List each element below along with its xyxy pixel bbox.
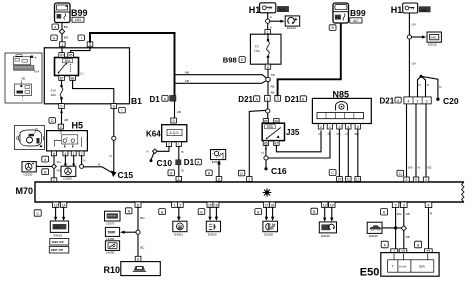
svg-text:C3020: C3020 (63, 177, 72, 181)
connector tag B (206, 170, 212, 176)
J35 pin 30 (274, 119, 279, 124)
wire node to M70 pin2 (249, 110, 265, 176)
diagnostic socket R10 (121, 262, 161, 276)
R10 pin 8 (135, 256, 141, 261)
connector tag A (51, 35, 57, 41)
M70 pin 18 (bottom) (269, 202, 275, 207)
B1 pin 5 (59, 104, 65, 109)
wire J35 87 to N85 pin2 (276, 131, 321, 152)
svg-text:8: 8 (137, 257, 139, 261)
M70 pin 2 (bottom) (177, 202, 183, 207)
D21 pin 3 (275, 95, 281, 101)
N85 pin 5 (355, 124, 360, 129)
wire pin1 to 30 (61, 47, 63, 53)
svg-text:1: 1 (178, 143, 180, 147)
relay pin 86 (70, 76, 76, 81)
connector tag A (52, 24, 58, 30)
M70 pin 3 (bottom, E50) (401, 202, 408, 208)
splice diamond (59, 29, 64, 34)
D21 pin 1 (265, 95, 271, 101)
svg-text:8: 8 (89, 43, 91, 47)
svg-text:D21: D21 (238, 95, 253, 104)
svg-text:0000: 0000 (54, 225, 61, 229)
wire H5 pin6 to M70 (53, 156, 55, 178)
N85 pin 4 (346, 124, 351, 129)
M70 pin 2 (top, block C) (51, 178, 57, 183)
svg-text:9: 9 (415, 178, 417, 182)
connector tag A (42, 156, 49, 162)
M70 pin 4 (bottom, E50) (425, 202, 432, 208)
svg-text:N: N (147, 150, 149, 154)
svg-text:AB: AB (406, 212, 410, 216)
svg-text:4: 4 (64, 152, 66, 156)
svg-text:A: A (270, 15, 272, 19)
svg-text:A/C: A/C (353, 19, 359, 23)
svg-text:B: B (182, 169, 184, 173)
connector tag D (49, 118, 55, 124)
svg-text:WV: WV (397, 212, 402, 216)
svg-text:I: I (81, 36, 82, 40)
svg-text:E1: E1 (80, 72, 84, 76)
icon L3570 (105, 211, 121, 225)
wire D21 pin3 to B99 A/C (278, 23, 341, 95)
H5 pin 4 (63, 151, 68, 156)
svg-text:10: 10 (338, 177, 342, 181)
svg-text:14: 14 (62, 203, 66, 207)
gear symbol in M70 (263, 188, 272, 197)
splice circle (264, 156, 268, 160)
svg-text:12: 12 (356, 177, 360, 181)
splice circle (266, 109, 270, 113)
svg-text:5: 5 (357, 125, 359, 129)
fuse F2 in B98 (267, 34, 270, 64)
svg-text:J35: J35 (286, 128, 300, 137)
battery B99 (A/C) (333, 3, 349, 23)
D21 connector 3-pin box (404, 97, 431, 104)
wire B98 to node (267, 69, 269, 77)
K64 pin 1 (176, 142, 181, 147)
B1 pin 1 (60, 42, 66, 47)
AB feed line upper (175, 75, 267, 79)
wire H5 pin1 to C3020 (73, 156, 75, 165)
relay pin 87 (59, 76, 65, 81)
H5 pin 2 (top) (58, 124, 63, 129)
svg-text:D1: D1 (150, 95, 161, 104)
engine location illustration (15, 126, 45, 150)
relay pin 85 (68, 53, 74, 58)
svg-text:VN: VN (56, 160, 60, 164)
icon E3000 headlamp (206, 221, 220, 236)
tag (dark) (277, 6, 288, 11)
svg-text:6: 6 (53, 152, 55, 156)
svg-text:2: 2 (417, 99, 419, 103)
splice circle (136, 230, 140, 234)
panel lamp E3530 (211, 149, 226, 164)
M70 pin 1 (423, 177, 429, 182)
icon E1010 (285, 16, 300, 30)
svg-text:BN: BN (64, 25, 68, 29)
wires to E3030 (324, 207, 326, 218)
svg-text:F14: F14 (34, 70, 40, 74)
svg-text:6: 6 (113, 105, 115, 109)
svg-text:3: 3 (403, 204, 405, 208)
arrow to TRIP (124, 231, 136, 233)
N85 pin 2 (318, 124, 323, 129)
B1 pin 8 (87, 42, 93, 47)
svg-text:B1: B1 (131, 96, 142, 106)
svg-text:F2: F2 (255, 44, 259, 48)
wire J35 86 to C16 and N85 pin1 (265, 145, 267, 155)
svg-text:16: 16 (214, 203, 218, 207)
heated rear window H5 (47, 129, 88, 151)
fuse F14 in B1 (60, 80, 63, 103)
svg-text:B99: B99 (350, 8, 366, 18)
svg-text:1: 1 (425, 178, 427, 182)
wire node to D21 pin1 (267, 82, 269, 96)
icon E2030 fog lamp (263, 221, 278, 236)
svg-text:D21: D21 (380, 96, 395, 105)
svg-text:BN: BN (64, 36, 68, 40)
svg-text:E1010: E1010 (287, 26, 296, 30)
N85 pin 3 (337, 124, 342, 129)
svg-text:2: 2 (168, 143, 170, 147)
connector tag I (119, 107, 126, 113)
svg-text:B99: B99 (71, 8, 88, 18)
svg-text:E50: E50 (360, 267, 380, 279)
svg-text:3: 3 (426, 99, 428, 103)
svg-text:4: 4 (428, 204, 430, 208)
node wire from top to D1 (174, 33, 176, 96)
svg-text:C10: C10 (157, 158, 173, 168)
svg-text:18: 18 (270, 203, 274, 207)
D1 pin (dark) (170, 95, 176, 101)
svg-text:14: 14 (330, 203, 334, 207)
wire D21 pin1 to J35 85 (267, 101, 269, 118)
M70 pin 14 (bottom) (60, 202, 66, 207)
B1 pin 6 (111, 104, 117, 109)
wire to E4021 (178, 207, 180, 217)
icon E4015 odometer (50, 221, 68, 237)
svg-text:85: 85 (69, 53, 73, 57)
fusebox location illustration (5, 53, 42, 103)
svg-text:2387 JTD: 2387 JTD (51, 248, 63, 252)
M70 pin 14 (bottom right) (329, 202, 335, 207)
splice circle (266, 19, 270, 23)
svg-text:20A: 20A (51, 93, 56, 97)
wire B1 pin6 to C15 (113, 109, 115, 173)
connector icon C3020 (B) (61, 166, 76, 180)
svg-text:8: 8 (218, 177, 220, 181)
M70 pin 17 (bottom) (263, 202, 269, 207)
icon E4021 (173, 221, 187, 236)
M70 pin 1 (bottom) (172, 202, 178, 207)
wire M70-5 to E50-7 (395, 208, 397, 249)
variant tag 1910 JTD (50, 238, 69, 245)
svg-text:1: 1 (329, 125, 331, 129)
M70 pin 1 (top) (176, 176, 182, 181)
E50 pin 7 (391, 249, 398, 254)
tag (dark) (419, 7, 430, 12)
svg-text:5: 5 (395, 204, 397, 208)
K64 pin 9 (171, 118, 177, 123)
M70 pin 8 (top) (216, 177, 222, 182)
fuse box B98 (250, 34, 281, 64)
H5 pin 6 (51, 151, 56, 156)
svg-text:N: N (427, 83, 429, 87)
svg-text:N: N (439, 85, 441, 89)
connector tag B (198, 209, 205, 215)
splice diamond (153, 149, 158, 154)
variant tag 2387 JTD (49, 246, 69, 253)
instrument cluster E50 (381, 253, 439, 277)
svg-text:17: 17 (264, 203, 268, 207)
C20 bracket node (420, 75, 423, 78)
wire C3020 to diamond (36, 165, 51, 167)
svg-text:BH: BH (140, 216, 144, 220)
M70 pin 12 (355, 177, 361, 182)
svg-text:C3020: C3020 (24, 172, 33, 176)
M70 pin 9 (413, 177, 419, 182)
svg-text:A: A (270, 26, 272, 30)
wire M70-4 to E50-25 (428, 208, 430, 249)
svg-text:13: 13 (323, 203, 327, 207)
svg-text:1: 1 (174, 203, 176, 207)
wire H1 down (408, 13, 410, 97)
svg-text:50A: 50A (267, 125, 274, 129)
connector tag A (381, 241, 388, 248)
wire to ground C10 (151, 153, 154, 159)
connector tag B (42, 169, 49, 175)
svg-text:1/81: 1/81 (75, 18, 82, 22)
icon E2010 (427, 32, 441, 47)
B98 pin 2 (bottom) (265, 64, 271, 69)
battery B99 (left) (55, 3, 71, 23)
svg-text:VN: VN (56, 169, 60, 173)
wire D21-4 to M70 (406, 104, 408, 177)
M70 pin 11 (bottom, R10) (135, 202, 141, 207)
svg-text:1: 1 (178, 177, 180, 181)
svg-text:4: 4 (347, 125, 349, 129)
svg-text:R10: R10 (104, 265, 121, 275)
connector icon C3020 (A) (22, 162, 36, 177)
svg-text:3: 3 (277, 97, 279, 101)
svg-text:AB: AB (185, 79, 189, 83)
svg-text:E4015: E4015 (54, 233, 63, 237)
svg-text:C20: C20 (443, 96, 459, 106)
svg-text:D21: D21 (285, 95, 300, 104)
connector tag B (168, 170, 174, 176)
svg-text:2: 2 (267, 65, 269, 69)
svg-text:7: 7 (81, 152, 83, 156)
svg-text:13: 13 (54, 203, 58, 207)
wire H5 pin7 to C15 (81, 156, 83, 165)
svg-text:AB: AB (406, 235, 410, 239)
splice circle (80, 164, 84, 168)
svg-text:3HE: 3HE (430, 36, 436, 40)
connector tag D (397, 170, 404, 176)
svg-text:E3040: E3040 (369, 234, 378, 238)
M70 pin 15 (bottom) (207, 202, 213, 207)
svg-text:15: 15 (208, 203, 212, 207)
svg-text:L4080: L4080 (106, 237, 115, 241)
arrow to E2010 (412, 36, 424, 38)
svg-text:E4021: E4021 (174, 232, 183, 236)
J35 pin 86 (263, 141, 268, 146)
svg-text:C16: C16 (271, 166, 287, 176)
ground point C20 (436, 98, 439, 101)
M70 pin 2 (247, 177, 253, 182)
wire D21-2 to M70 (415, 104, 417, 177)
wire N85 pin3 to M70 (338, 129, 340, 177)
svg-text:2: 2 (179, 203, 181, 207)
svg-text:87: 87 (60, 76, 64, 80)
J35 pin 85 (263, 119, 268, 124)
svg-text:3: 3 (406, 178, 408, 182)
wire M70-3 to E50-15 (403, 208, 405, 249)
wire H5 pin4 to C3020 (64, 156, 66, 165)
svg-text:AB: AB (64, 118, 68, 122)
svg-text:AB: AB (271, 73, 275, 77)
connector tag C (329, 170, 336, 176)
svg-text:AB: AB (270, 85, 274, 89)
wire K64 pin2 to C10 (157, 147, 169, 152)
fusebox B1 (44, 48, 129, 104)
connector tag B (381, 209, 388, 215)
wire E3530 to M70 (218, 165, 220, 177)
svg-text:N: N (98, 162, 100, 166)
icon E3030 (319, 222, 336, 238)
svg-text:AB: AB (185, 71, 189, 75)
H5 pin 7 (79, 151, 84, 156)
wire K64 pin1 to M70 (178, 147, 180, 177)
D1 pin (dark, lower) (176, 160, 181, 165)
M70 pin 13 (bottom) (52, 202, 58, 207)
N85 pin 1 (327, 124, 332, 129)
svg-text:TRIP: TRIP (107, 231, 116, 235)
svg-text:11: 11 (136, 203, 140, 207)
connector tag B (311, 208, 318, 214)
svg-text:9: 9 (173, 119, 175, 123)
wire H1 down (267, 13, 269, 30)
M70 pin 10 (337, 177, 343, 182)
splice diamond (52, 164, 57, 169)
svg-text:rpm: rpm (419, 265, 425, 269)
svg-text:I: I (122, 109, 123, 113)
relay J35 (262, 123, 284, 140)
body computer M70 (35, 182, 464, 202)
wire pin8 to 85 (71, 47, 90, 53)
svg-text:E2010: E2010 (428, 43, 437, 47)
svg-text:N: N (83, 159, 85, 163)
svg-text:H1: H1 (249, 5, 261, 15)
M70 pin 11 (345, 177, 351, 182)
M70 pin 5 (bottom, E50) (392, 202, 399, 208)
wire circle to C15 (84, 167, 114, 173)
connector tag C (34, 210, 41, 216)
connector tag B (255, 209, 262, 215)
wire pin14 to E4015 (63, 207, 65, 217)
switch TRIP (105, 227, 119, 240)
svg-text:30A: 30A (64, 59, 71, 63)
wire D21-3 to M70 (425, 104, 427, 177)
ground point C15 (111, 171, 117, 178)
svg-text:AB: AB (177, 110, 181, 114)
wire pin13 to E4015 (55, 207, 57, 217)
connector tag D (for M70 pin 2 wire) (238, 170, 244, 176)
svg-text:H5: H5 (72, 120, 84, 130)
svg-text:M70: M70 (16, 186, 34, 196)
connector tag B (329, 25, 336, 31)
wire E3040 to diamond (382, 227, 402, 229)
relay pin 30 (59, 53, 65, 58)
icon L4090 (105, 241, 119, 255)
thick wire B1 pin8 up and right to node (90, 33, 175, 42)
tag 1/81 (72, 17, 84, 22)
svg-text:1: 1 (61, 43, 63, 47)
svg-text:E3000: E3000 (208, 232, 217, 236)
wire B1 pin5 to H5 (61, 109, 63, 125)
svg-text:GN: GN (408, 166, 413, 170)
svg-text:NVA: NVA (421, 8, 427, 12)
svg-text:H1: H1 (391, 5, 403, 15)
svg-text:A.Q.S.: A.Q.S. (170, 131, 180, 135)
wire 86 to pin 6 (73, 80, 114, 103)
svg-text:3: 3 (338, 125, 340, 129)
K64 pin 2 (166, 142, 171, 147)
wire D1 to K64 (174, 101, 176, 118)
AB feed line lower (175, 81, 267, 84)
svg-text:40A: 40A (335, 15, 340, 19)
svg-text:11: 11 (346, 177, 350, 181)
icon E3040 speed sensor (367, 222, 382, 238)
arrow to E1010 (270, 20, 282, 22)
svg-text:N: N (262, 151, 264, 155)
svg-text:1: 1 (73, 152, 75, 156)
J35 pin 87 (274, 141, 279, 146)
svg-text:B1: B1 (22, 77, 26, 81)
connector tag B (415, 241, 422, 248)
svg-text:30: 30 (60, 53, 64, 57)
svg-text:L3570: L3570 (106, 221, 115, 225)
svg-text:E3030: E3030 (321, 234, 330, 238)
svg-text:F14: F14 (51, 88, 57, 92)
svg-text:B98: B98 (223, 56, 237, 65)
M70 pin 3 (404, 177, 410, 182)
svg-text:AB: AB (270, 91, 274, 95)
wire to ground C16 (265, 160, 267, 167)
svg-text:A: A (35, 55, 37, 59)
wires to E3000 (209, 207, 211, 217)
svg-text:N: N (419, 83, 421, 87)
control unit K64 (162, 125, 187, 142)
svg-text:1910 JTD: 1910 JTD (51, 240, 63, 244)
wire N85 pin4 to M70 (347, 129, 349, 177)
H5 pin 1 (71, 151, 76, 156)
wire M70 to R10 (137, 207, 139, 256)
svg-text:GV: GV (412, 22, 416, 26)
connector tag B (125, 208, 132, 214)
svg-text:N: N (328, 132, 330, 136)
relay in B1 (55, 58, 79, 76)
splice circle (112, 136, 116, 140)
svg-text:2: 2 (248, 178, 250, 182)
svg-text:86: 86 (71, 76, 75, 80)
wires to E2030 (265, 207, 267, 217)
svg-text:T: T (392, 265, 394, 269)
M70 pin 13 (bottom right) (322, 202, 328, 207)
wire N85 pin5 to M70 (357, 129, 359, 177)
wire to N85 pin1 (268, 131, 330, 158)
